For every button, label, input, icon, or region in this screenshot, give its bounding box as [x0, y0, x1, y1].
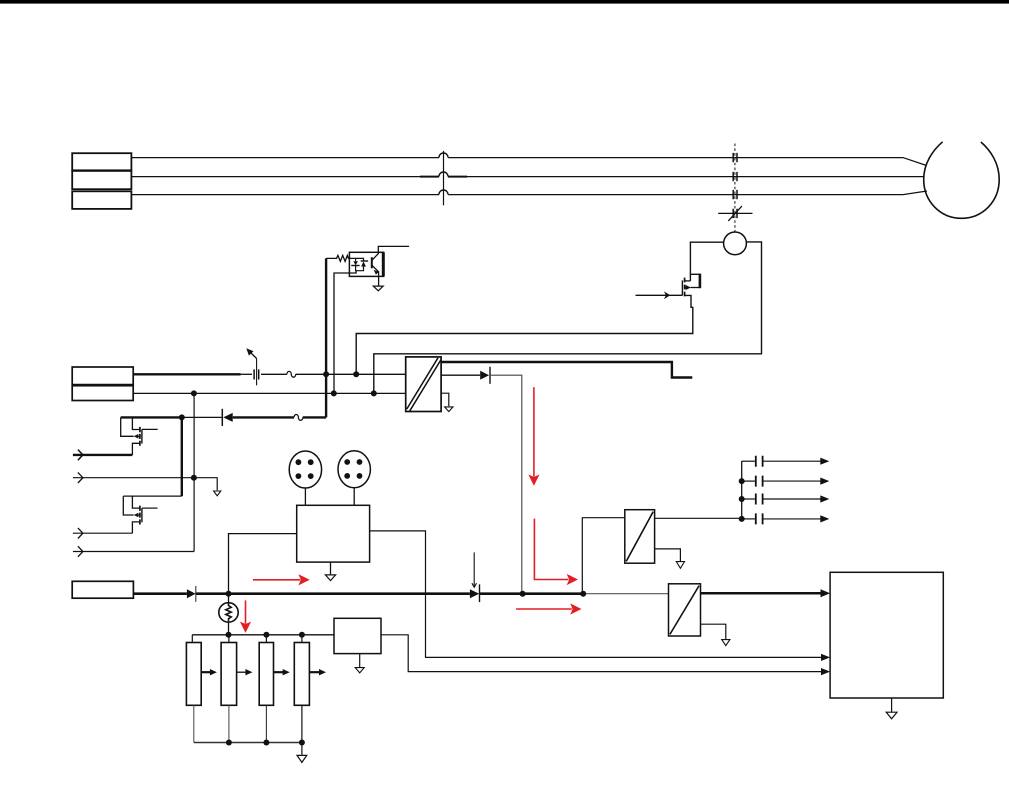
diode D1 [221, 409, 223, 426]
node main wire / U4 feed [580, 591, 586, 597]
node battery positive / source return [353, 371, 359, 377]
arrow R2 [201, 671, 210, 673]
diode D3 [187, 589, 196, 598]
Q1 gate wire [636, 294, 683, 296]
arrow R5 [309, 671, 319, 673]
node precharge bus [179, 414, 185, 420]
capacitor C3 row [742, 494, 821, 505]
capacitor bank rail [741, 461, 743, 519]
resistor R5 [294, 643, 309, 706]
header bar [0, 0, 1009, 4]
interface box U7 [334, 618, 381, 653]
wire battery positive [133, 373, 240, 375]
current sensor CS1 [724, 232, 747, 255]
key switch box S1 [72, 581, 133, 598]
resistor bottom rail [194, 742, 302, 744]
wire U2 to D2 [441, 374, 480, 376]
U2 thick output [441, 362, 692, 378]
transistor Q1 [356, 274, 700, 375]
wire U4 input [582, 518, 625, 594]
node battery negative / sensor return [371, 390, 377, 396]
transistor M2 [121, 417, 158, 455]
ground input row 2 [214, 491, 221, 496]
input row 2 [73, 478, 217, 491]
CN1 stem [304, 488, 306, 505]
resistor R1 [326, 255, 350, 261]
DC/DC converter U4 [625, 510, 655, 564]
ground U1 [373, 286, 383, 291]
node resistor rail R3 [226, 632, 232, 638]
U1 phototransistor [372, 246, 409, 286]
input row 1 [73, 454, 132, 456]
capacitor C2 row [742, 476, 821, 487]
diode D4 [470, 589, 479, 598]
wire D2 down [490, 375, 522, 593]
red flow arrow right lower [516, 608, 572, 610]
thick bus left [121, 416, 182, 418]
red flow arrow down long [533, 387, 535, 476]
node main wire / D2 feed [520, 591, 526, 597]
ground U2 [441, 393, 449, 406]
DC/DC converter U5 [669, 584, 701, 636]
slash marker [718, 206, 752, 221]
connector J1 terminal box 2 [72, 171, 131, 189]
thick riser to M3 [181, 417, 183, 496]
main wire segment 4 [583, 593, 668, 595]
U1 input LED pair [349, 258, 368, 270]
node input row 2 [191, 475, 197, 481]
Q1 gate arrow [664, 291, 670, 299]
thermistor RT1 [228, 594, 230, 603]
optocoupler U1 body [349, 252, 383, 276]
wire to fuse [261, 373, 287, 375]
capacitor C1 row [742, 456, 821, 467]
red flow arrow right upper [253, 579, 300, 581]
probe arrow at D4 [473, 552, 475, 586]
node capacitor rail C2 [739, 478, 745, 484]
wire phase U [131, 158, 926, 166]
optocoupler U1 input riser [325, 258, 327, 417]
node bottom rail R4 [263, 740, 269, 746]
ground U7 [359, 654, 361, 667]
connector J1 terminal box 3 [72, 191, 131, 209]
wire U4 output [655, 517, 742, 519]
battery terminal box B+ [72, 367, 133, 385]
transistor M3 [123, 496, 182, 533]
battery terminal box B- [72, 386, 133, 401]
arrow R4 [274, 671, 284, 673]
arrow R3 [237, 671, 246, 673]
sensor linkage dashed line [734, 144, 736, 232]
node resistor rail R5 [299, 632, 305, 638]
CN2 stem [353, 488, 355, 506]
wire hop phase W [439, 190, 448, 195]
Q1 body arrow [686, 285, 691, 290]
node capacitor rail C3 [739, 496, 745, 502]
ground U6 [891, 698, 893, 712]
CT pickup lower [733, 209, 737, 218]
resistor bank top rail [192, 634, 334, 636]
red flow arrow down short [245, 600, 247, 623]
node battery negative / opto return [331, 390, 337, 396]
wire U5 output [701, 592, 826, 595]
resistor R2 [186, 643, 201, 706]
wire phase V [131, 176, 924, 178]
wire U3 right to U6 [370, 531, 826, 658]
motor M1 [924, 142, 1000, 219]
diode D2 [480, 371, 489, 380]
wire sensor left to Q1 drain [690, 242, 723, 281]
DC/DC converter U2 [406, 357, 441, 412]
connector CN2 [338, 451, 370, 488]
wire U7 right to U6 [381, 635, 826, 672]
CT pickup phase V [733, 172, 737, 181]
input row 4 [73, 551, 194, 553]
wire battery negative [133, 392, 406, 394]
resistor bottom stems [193, 705, 195, 742]
control module U3 [297, 505, 370, 562]
node resistor rail R4 [263, 632, 269, 638]
wire hop phase U [439, 153, 448, 158]
red flow arrow elbow [534, 519, 568, 580]
wire hop phase V [439, 172, 448, 177]
surge arrester SA1 [250, 352, 259, 385]
node capacitor rail C4 [739, 516, 745, 522]
main wire segment 1 [133, 592, 187, 595]
input row 3 [73, 532, 132, 534]
node bottom rail ground [299, 740, 305, 746]
resistor R3 [221, 643, 237, 706]
optocoupler U1 thick edge [382, 252, 385, 276]
node battery positive / opto riser [323, 371, 329, 377]
connector J1 terminal box 1 [72, 153, 131, 170]
wire fuse to U2 [296, 373, 406, 375]
node battery negative branch [191, 390, 197, 396]
wire phase W [131, 191, 927, 195]
connector break line [443, 151, 445, 205]
wire sensor right loop [374, 242, 762, 394]
ground resistor bank [301, 743, 303, 755]
ground U5 [701, 624, 726, 639]
controller box U6 [830, 572, 943, 698]
ground U3 [330, 562, 332, 574]
CT pickup phase U [733, 153, 737, 162]
node main wire / thermistor [226, 591, 232, 597]
fuse F2 [294, 414, 303, 420]
wire U3 left [229, 534, 297, 594]
wire phase V thick segment [420, 176, 467, 178]
CT pickup phase W [733, 190, 737, 199]
riser battery negative branch [193, 393, 195, 551]
capacitor C4 row [742, 513, 821, 524]
fuse F1 [287, 371, 296, 377]
main wire segment 2 [196, 592, 470, 595]
connector CN1 [289, 451, 321, 488]
resistor R4 [259, 643, 273, 706]
main wire segment 3 [480, 592, 584, 595]
U1 lower input wire [334, 271, 356, 394]
ground U4 [655, 549, 681, 561]
node bottom rail R3 [226, 740, 232, 746]
